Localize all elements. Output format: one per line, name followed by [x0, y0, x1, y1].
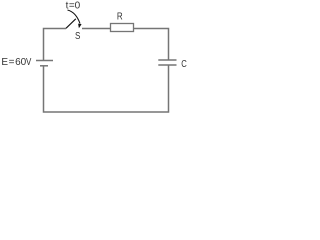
svg-text:C: C	[181, 59, 187, 70]
svg-text:S: S	[75, 31, 81, 42]
svg-text:E: E	[1, 57, 8, 68]
svg-text:0: 0	[75, 1, 81, 12]
svg-text:=: =	[9, 57, 15, 68]
svg-text:R: R	[117, 11, 123, 22]
svg-text:60: 60	[15, 57, 27, 68]
svg-text:V: V	[26, 57, 32, 68]
